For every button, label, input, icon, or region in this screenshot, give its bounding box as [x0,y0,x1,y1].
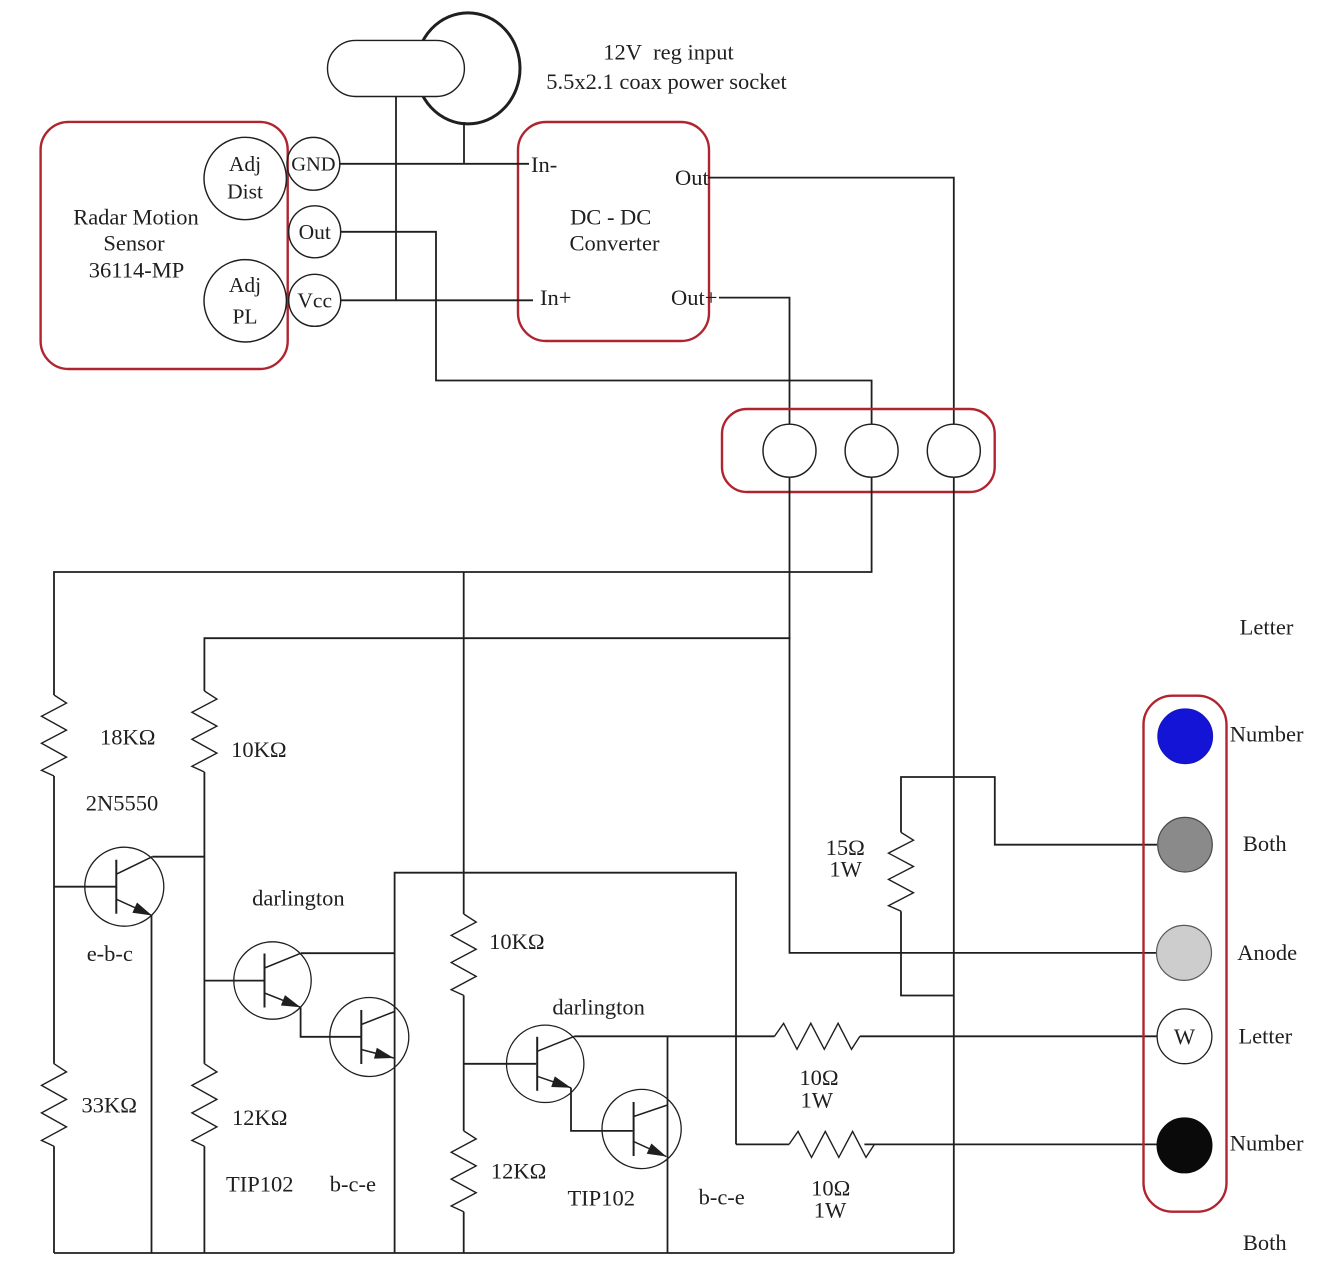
svg-text:Vcc: Vcc [297,289,332,313]
radar motion sensor module U1 [41,122,288,369]
svg-text:Letter: Letter [1240,614,1294,639]
svg-text:TIP102: TIP102 [567,1186,635,1211]
transistor Q2 TIP102a [234,942,311,1019]
LED panel connector J3 [1144,696,1227,1212]
svg-text:12KΩ: 12KΩ [232,1105,287,1130]
wire R9 to letter LED [860,1035,1157,1037]
wire R5 to R6 [463,995,465,1131]
svg-text:TIP102: TIP102 [226,1172,294,1197]
transistor Q5 TIP102b [602,1089,681,1168]
wire mid divider feed [463,572,465,914]
wire R6 to ground rail [463,1212,465,1253]
LED both dark gray [1158,817,1213,872]
pin GND [287,137,340,190]
svg-text:Sensor: Sensor [103,231,165,256]
wire Q5 rail to ground [667,1036,669,1253]
svg-text:Adj: Adj [229,273,261,297]
resistor R8 15 ohm 1W [889,832,914,911]
wire DC-DC Out to connector pin3 [708,178,954,425]
wire number bus [864,1143,1157,1145]
svg-text:W: W [1174,1024,1196,1049]
wire Q2 collector [301,952,395,954]
svg-text:1W: 1W [829,856,862,881]
trimpot Adj Dist [204,137,286,219]
wire pin1 to anode bus [790,477,1158,953]
coax power socket J1 sleeve [328,40,465,96]
svg-text:12V reg input: 12V reg input [603,39,734,64]
svg-text:Adj: Adj [229,152,261,176]
wire Q4 base [464,1063,537,1065]
LED letter white W [1157,1009,1212,1064]
trimpot Adj PL [204,260,286,342]
DC-DC converter module U2 [518,122,709,341]
svg-text:1W: 1W [814,1198,847,1223]
wire pin2 to base-divider rail [54,477,872,695]
svg-text:Number: Number [1230,722,1304,747]
transistor Q4 TIP102a [507,1025,584,1102]
LED blue [1158,709,1213,764]
resistor R9 10 ohm [775,1023,860,1049]
pin Out [289,206,341,258]
svg-text:b-c-e: b-c-e [699,1185,745,1210]
coax power socket J1 barrel [416,13,520,124]
wire R4 to ground rail [203,1146,205,1253]
svg-text:Radar Motion: Radar Motion [73,205,199,230]
svg-text:Converter: Converter [570,231,660,256]
resistor R3 33K [42,1064,67,1147]
svg-text:12KΩ: 12KΩ [491,1159,546,1184]
wire Q2 emitter to Q3 base [301,1007,362,1037]
resistor R6 12K mid [451,1131,476,1212]
resistor R1 18K [42,695,67,776]
svg-text:33KΩ: 33KΩ [82,1093,137,1118]
resistor R10 10 ohm [789,1131,874,1157]
svg-text:In+: In+ [540,285,571,310]
wire sensor Out to connector pin2 [341,232,872,424]
LED anode light gray [1157,925,1212,980]
svg-text:10KΩ: 10KΩ [231,737,286,762]
svg-text:PL: PL [232,305,257,329]
svg-text:Both: Both [1243,831,1287,856]
svg-text:Number: Number [1230,1130,1304,1155]
svg-text:Out+: Out+ [671,285,717,310]
resistor R5 10K mid [451,914,476,995]
resistor R4 12K [192,1064,217,1147]
wire Vcc to In+ [341,299,533,301]
wire Q1 emitter to ground rail [151,916,153,1254]
wire Q1 collector [152,856,204,858]
wire R1 to Q1 base node [53,776,55,1064]
svg-text:DC - DC: DC - DC [570,205,651,230]
transistor Q3 TIP102b [330,998,409,1077]
connector J2 pin 3 [927,424,980,477]
wire socket barrel to GND net [463,122,465,164]
svg-text:36114-MP: 36114-MP [89,258,184,283]
svg-text:b-c-e: b-c-e [330,1172,376,1197]
wire R8 bottom to right rail [901,911,954,995]
svg-text:Out: Out [299,220,331,244]
wire DC-DC Out+ to connector pin1 [719,298,790,425]
wire Q1 base [54,886,116,888]
wire Q2 base [204,980,264,982]
svg-text:1W: 1W [801,1088,834,1113]
svg-text:e-b-c: e-b-c [87,941,133,966]
svg-text:5.5x2.1 coax power socket: 5.5x2.1 coax power socket [546,69,787,94]
wire R3 to ground rail [53,1146,55,1253]
svg-text:18KΩ: 18KΩ [100,724,155,749]
wire Q4 emitter to Q5 base [571,1088,633,1131]
ground rail [54,1252,954,1254]
wire GND to In- [340,163,529,165]
connector J2 pin 1 [763,424,816,477]
connector J2 pin 2 [845,424,898,477]
svg-text:2N5550: 2N5550 [86,791,159,816]
svg-text:10KΩ: 10KΩ [489,929,544,954]
wire collector bus left [395,873,736,1253]
svg-text:Both: Both [1243,1230,1287,1255]
svg-text:10Ω: 10Ω [799,1065,838,1090]
svg-text:Out: Out [675,165,709,190]
wire R8 top to Both LED [901,777,1157,845]
transistor Q1 2N5550 [85,847,164,926]
connector J2 [722,409,995,492]
wire R2 bottom to R4 [203,772,205,1064]
wire Q4 collector to R9 [575,1035,775,1037]
LED number black [1157,1118,1212,1173]
svg-text:Letter: Letter [1238,1024,1292,1049]
svg-text:In-: In- [531,152,557,177]
svg-text:Anode: Anode [1237,940,1297,965]
svg-text:GND: GND [291,154,335,176]
wire bus to R10 [736,1143,789,1145]
wire 5V rail to 10K divider [204,638,790,691]
svg-text:darlington: darlington [252,886,344,911]
wire pin3 down right rail [953,477,955,1253]
wire socket sleeve to Vcc node [395,97,397,301]
pin Vcc [289,274,341,326]
svg-text:Dist: Dist [227,180,263,204]
resistor R2 10K [192,691,217,772]
svg-text:darlington: darlington [552,995,644,1020]
